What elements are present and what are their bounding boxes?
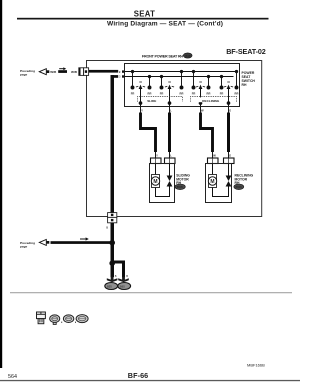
svg-text:Y: Y — [156, 154, 158, 158]
reclining motor box — [206, 164, 232, 203]
legend connector K1 — [37, 312, 46, 324]
wire color labels under switch — [141, 109, 231, 113]
svg-text:W: W — [201, 109, 204, 113]
motor connector T4 — [224, 158, 235, 164]
junction node J1 — [109, 240, 115, 246]
svg-text:W/B: W/B — [50, 70, 57, 74]
svg-text:FR: FR — [192, 91, 196, 95]
svg-text:M: M — [153, 179, 157, 185]
contact RR2 — [180, 70, 183, 89]
connector badge B38 — [183, 53, 192, 58]
svg-text:B506: B506 — [236, 185, 243, 189]
svg-text:RR: RR — [148, 91, 152, 95]
label POWER SEAT SWITCH RH — [242, 71, 256, 87]
preceding page arrow top — [20, 69, 49, 77]
svg-text:B55: B55 — [107, 284, 112, 288]
svg-text:page: page — [20, 73, 28, 77]
svg-text:W: W — [213, 154, 216, 158]
switch arm S3 — [196, 80, 205, 107]
ground tee wire — [111, 75, 119, 78]
switch arm S1 — [136, 80, 145, 107]
label SLIDING MOTOR RH — [176, 174, 190, 185]
contact RR4 — [235, 70, 238, 89]
contact RR1 — [148, 75, 151, 89]
svg-text:B: B — [106, 226, 108, 230]
junction node J2 — [109, 260, 115, 266]
wire into motor M2 — [212, 164, 214, 175]
wire W3 recline FR — [201, 113, 213, 153]
ground feed wire bottom — [51, 241, 113, 244]
legend connector K4 — [76, 315, 88, 323]
legend connector K2 — [50, 315, 60, 324]
contact FR2 — [160, 75, 163, 89]
svg-text:564: 564 — [8, 374, 17, 380]
svg-text:L: L — [170, 109, 172, 113]
switch contacts group — [131, 70, 238, 89]
svg-text:N: N — [199, 80, 201, 84]
reclining motor internals — [208, 164, 231, 197]
svg-text:G: G — [229, 109, 231, 113]
switch terminal tick 1 — [119, 70, 124, 74]
circuit breaker CB1 — [167, 176, 173, 187]
svg-text:B65: B65 — [120, 284, 125, 288]
ground terminal right — [118, 274, 131, 290]
legend connector K3 — [63, 315, 73, 323]
svg-text:L: L — [170, 154, 172, 158]
contact labels FR RR — [131, 91, 239, 95]
svg-text:BF-SEAT-02: BF-SEAT-02 — [226, 47, 266, 56]
splice arrow on feed wire — [58, 67, 67, 73]
splice arrow on ground wire — [80, 237, 89, 240]
svg-text:M: M — [210, 179, 214, 185]
svg-text:2: 2 — [119, 70, 121, 74]
ground riser lower — [111, 223, 115, 265]
svg-text:RR: RR — [235, 91, 239, 95]
circuit breaker CB2 — [226, 176, 232, 187]
connector badge B506 — [234, 184, 244, 190]
motor connector T1 — [151, 158, 162, 164]
label RECLINING MOTOR RH — [235, 174, 254, 185]
preceding page arrow bottom — [20, 239, 49, 248]
terminal stubs into motors — [156, 152, 229, 158]
ground terminal left — [105, 274, 118, 290]
svg-text:3: 3 — [119, 75, 121, 79]
svg-text:RECLINING: RECLINING — [202, 99, 220, 103]
header rule — [17, 18, 269, 20]
footer rule — [0, 380, 300, 381]
outer harness box — [87, 61, 262, 217]
svg-text:FR: FR — [160, 91, 164, 95]
contact FR1 — [131, 70, 134, 89]
svg-text:page: page — [20, 245, 28, 249]
through connector at harness bottom — [108, 213, 117, 223]
page left binding bar — [0, 0, 2, 368]
separator rule — [10, 291, 292, 294]
motor connector T3 — [208, 158, 219, 164]
motor M2 — [208, 175, 216, 188]
svg-text:MBF166B: MBF166B — [247, 362, 265, 367]
SLIDE dashed bracket — [138, 97, 183, 104]
motor M1 — [151, 175, 159, 188]
svg-text:BF-66: BF-66 — [128, 371, 148, 380]
svg-text:B: B — [126, 274, 128, 278]
svg-text:Y: Y — [141, 109, 143, 113]
connector badge B505 — [175, 184, 185, 190]
bus wire B+ — [125, 71, 238, 73]
svg-text:B: B — [115, 274, 117, 278]
contact FR3 — [192, 70, 195, 89]
contact RR3 — [207, 75, 210, 89]
wire W4 recline RR — [227, 113, 230, 153]
svg-text:FR: FR — [131, 91, 135, 95]
contact FR4 — [220, 75, 223, 89]
svg-text:FRONT POWER SEAT RH: FRONT POWER SEAT RH — [142, 54, 184, 58]
switch arm S4 — [224, 80, 233, 107]
ground riser wire — [111, 75, 115, 213]
pin stubs below switch box — [141, 107, 229, 113]
svg-text:B38: B38 — [185, 54, 191, 58]
link wire M1 to CB1 — [156, 187, 170, 197]
wire into motor M1 — [155, 164, 157, 175]
svg-text:N: N — [227, 80, 229, 84]
sliding motor internals — [151, 164, 172, 197]
wire W2 slide RR — [168, 113, 171, 153]
motor connector T2 — [165, 158, 176, 164]
ground branch wire right — [112, 262, 123, 277]
svg-text:N: N — [139, 80, 141, 84]
inline connector pair at harness edge — [79, 68, 89, 76]
wire into breaker CB1 — [169, 164, 171, 176]
svg-text:SEAT: SEAT — [134, 10, 155, 19]
wire into breaker CB2 — [228, 164, 230, 176]
svg-text:G: G — [229, 154, 231, 158]
bus wire GND — [125, 76, 234, 78]
link wire M2 to CB2 — [213, 187, 229, 197]
svg-text:B505: B505 — [177, 185, 184, 189]
svg-text:RR: RR — [180, 91, 184, 95]
svg-text:N: N — [168, 80, 170, 84]
feed wire thick to switch — [89, 70, 119, 73]
svg-text:FR: FR — [220, 91, 224, 95]
power seat switch box U1 — [125, 64, 240, 107]
svg-text:Wiring Diagram — SEAT — (Cont': Wiring Diagram — SEAT — (Cont'd) — [107, 20, 223, 27]
RECLINING dashed bracket — [191, 97, 237, 104]
svg-text:SLIDE: SLIDE — [147, 99, 156, 103]
switch terminal tick 2 — [119, 75, 124, 79]
sliding motor box — [150, 164, 175, 203]
switch arm S2 — [165, 80, 174, 107]
motor terminal letters — [156, 154, 231, 158]
svg-text:RH: RH — [242, 83, 247, 87]
ground branch wire left — [111, 263, 115, 277]
wire W1 slide FR — [141, 113, 156, 153]
legend separator dots — [61, 322, 76, 323]
svg-text:W/B: W/B — [71, 70, 78, 74]
svg-text:RR: RR — [207, 91, 211, 95]
